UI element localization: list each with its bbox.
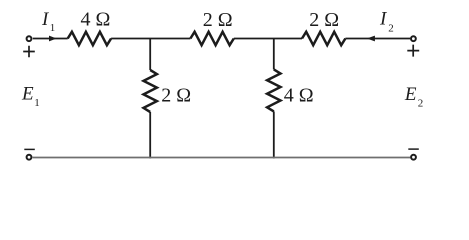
svg-text:2 Ω: 2 Ω [203, 9, 233, 31]
svg-text:E: E [21, 83, 34, 104]
arrow I2 [367, 36, 375, 42]
svg-text:2 Ω: 2 Ω [161, 84, 191, 106]
wire bottom rail [33, 157, 411, 159]
plus sign right [407, 45, 419, 57]
node A vertical wire lower [149, 112, 151, 158]
svg-text:I: I [379, 8, 388, 29]
svg-text:E: E [404, 84, 417, 105]
wire between R2 and node B [234, 38, 302, 40]
minus bar right [408, 148, 419, 150]
resistor R5 4ohm shunt [267, 69, 280, 111]
resistor R2 2ohm series middle [190, 32, 233, 45]
svg-text:4 Ω: 4 Ω [284, 84, 314, 106]
terminal top-right [411, 36, 416, 41]
arrow I1 [49, 36, 57, 42]
wire between R1 and node A [111, 38, 190, 40]
node B vertical wire upper [273, 39, 275, 70]
resistor R1 4ohm series [68, 32, 111, 45]
minus bar left [24, 148, 35, 150]
resistor R3 2ohm series right [302, 32, 345, 45]
svg-text:1: 1 [50, 22, 56, 34]
node B vertical wire lower [273, 111, 275, 158]
wire top-left segment [33, 38, 68, 40]
svg-text:4 Ω: 4 Ω [81, 9, 111, 31]
svg-text:1: 1 [34, 97, 40, 109]
terminal top-left [27, 36, 32, 41]
svg-text:2 Ω: 2 Ω [309, 9, 339, 31]
terminal bottom-right [411, 155, 416, 160]
wire top-right segment [345, 38, 410, 40]
terminal bottom-left [27, 155, 32, 160]
node A vertical wire upper [149, 39, 151, 71]
svg-text:2: 2 [388, 22, 394, 34]
resistor R4 2ohm shunt [144, 70, 157, 112]
svg-text:2: 2 [418, 98, 424, 110]
svg-text:I: I [41, 9, 50, 30]
plus sign left [23, 46, 35, 58]
